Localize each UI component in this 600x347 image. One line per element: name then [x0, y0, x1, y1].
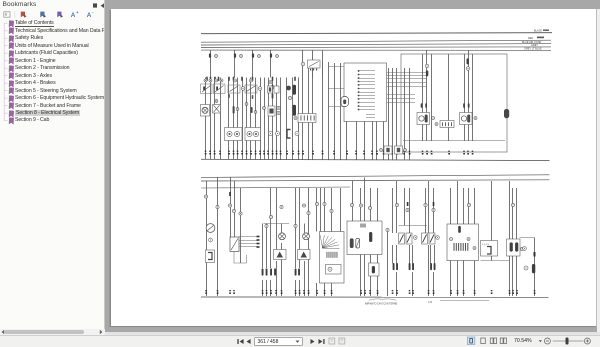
lamp E2 turn signal	[279, 233, 286, 240]
fuse F4	[270, 53, 279, 57]
inline connectors mid row	[233, 103, 266, 114]
flasher pins	[234, 236, 260, 263]
relay K5	[274, 250, 287, 260]
relay module K7	[347, 221, 382, 255]
svg-text:A: A	[71, 12, 76, 19]
connector pair P4	[262, 268, 268, 275]
connector pair P10	[430, 263, 435, 270]
wire lower rail of top band	[201, 159, 550, 160]
module U1 enclosure	[401, 54, 507, 152]
svg-text:A: A	[87, 12, 92, 19]
connector pair P6	[295, 268, 300, 275]
gauge M3	[206, 224, 215, 242]
connector P2	[293, 105, 296, 116]
flasher unit U2	[230, 237, 239, 252]
sensor B1	[206, 250, 215, 263]
connector X2 multi-pin	[294, 114, 316, 123]
connector pair P8	[393, 263, 398, 270]
wire harness top-left vertical drops	[206, 50, 303, 159]
connector ticks above relay row	[206, 77, 296, 99]
wires inside U1	[403, 50, 505, 141]
switch S1	[228, 79, 245, 93]
motor M2	[460, 103, 478, 124]
ignition switch S5	[320, 232, 345, 284]
fuse F2	[234, 53, 243, 57]
svg-text:2.1-1.5: 2.1-1.5	[482, 244, 490, 246]
sender G1 twin gauges	[225, 128, 243, 141]
switch S2	[245, 79, 262, 93]
switch S6	[399, 233, 418, 244]
wire harness top-middle vertical drops	[303, 50, 410, 159]
switch S4	[268, 106, 280, 116]
terminal T2	[466, 58, 470, 70]
wire top bus line B+	[201, 33, 552, 34]
fuse F3	[252, 53, 261, 57]
wire bottom band rail 1	[201, 175, 550, 178]
connector P11 right	[524, 252, 536, 273]
horn H1	[213, 100, 221, 113]
svg-text:L73: L73	[428, 301, 433, 304]
lamp E1	[201, 105, 210, 117]
bottom toolbar	[0, 335, 600, 347]
sender G2 twin gauges	[245, 128, 261, 141]
relay module K8	[507, 239, 527, 256]
label harness caption	[365, 299, 433, 306]
scanned page	[111, 9, 598, 326]
relay K4	[341, 97, 349, 107]
wire bottom band rail 2	[201, 180, 550, 181]
wire bus line 4	[201, 46, 551, 49]
svg-text:+: +	[76, 10, 79, 15]
fuse F1	[209, 53, 218, 57]
resistor R1	[504, 109, 509, 118]
motor M1	[417, 103, 435, 124]
relay K6	[298, 250, 311, 260]
connector pair P9	[409, 263, 414, 270]
net labels bus right end	[522, 30, 549, 51]
wire bus line 3	[201, 44, 551, 45]
svg-text:GREY LT BLUE: GREY LT BLUE	[524, 47, 542, 50]
module U4	[481, 241, 498, 257]
relay K2	[214, 79, 226, 94]
node terminals below rails	[204, 195, 527, 270]
relay K3	[301, 60, 320, 71]
switch S3	[268, 81, 280, 94]
svg-text:-: -	[92, 10, 94, 15]
junction ticks above lower rail (top band)	[205, 151, 474, 155]
wire bus line 2	[201, 40, 551, 42]
document canvas (grey)	[105, 0, 600, 332]
control unit U3	[447, 224, 479, 261]
wires X1 to fuse box	[328, 67, 427, 107]
lamp E3 turn signal	[303, 233, 310, 240]
junction ticks above ground rail	[205, 290, 535, 294]
wire harness bottom-middle vertical drops	[353, 178, 535, 297]
connector pair P5	[270, 268, 276, 275]
wire bottom band rail 3	[201, 187, 350, 188]
switch S7	[422, 233, 440, 244]
svg-text:RED: RED	[528, 37, 533, 40]
breaker CB1 pair	[380, 146, 407, 154]
bookmarks panel	[0, 0, 105, 329]
connector P1	[288, 85, 296, 100]
panel horizontal scrollbar	[0, 329, 105, 335]
relay K1	[201, 79, 213, 94]
connector X3	[435, 121, 454, 128]
connector P7	[369, 263, 380, 276]
svg-text:BLACK: BLACK	[534, 30, 543, 33]
connector P3	[287, 130, 291, 139]
wire harness bottom-left vertical drops	[207, 178, 341, 297]
node terminals row D	[269, 132, 300, 136]
wire bus line 5	[201, 49, 551, 51]
connector X1 block	[344, 63, 387, 122]
wire ground rail bottom	[201, 297, 549, 301]
terminal T1	[425, 64, 429, 76]
connector ticks mid	[229, 192, 434, 206]
svg-text:IMPIANTO CAVI CON TERRE: IMPIANTO CAVI CON TERRE	[365, 303, 398, 306]
